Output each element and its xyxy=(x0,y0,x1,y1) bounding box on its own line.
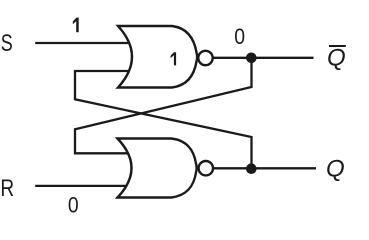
svg-text:S: S xyxy=(1,30,13,57)
svg-text:Q: Q xyxy=(326,155,345,182)
svg-text:Q: Q xyxy=(327,45,346,72)
svg-text:0: 0 xyxy=(234,24,245,49)
svg-text:0: 0 xyxy=(68,192,79,217)
svg-text:R: R xyxy=(0,175,14,202)
